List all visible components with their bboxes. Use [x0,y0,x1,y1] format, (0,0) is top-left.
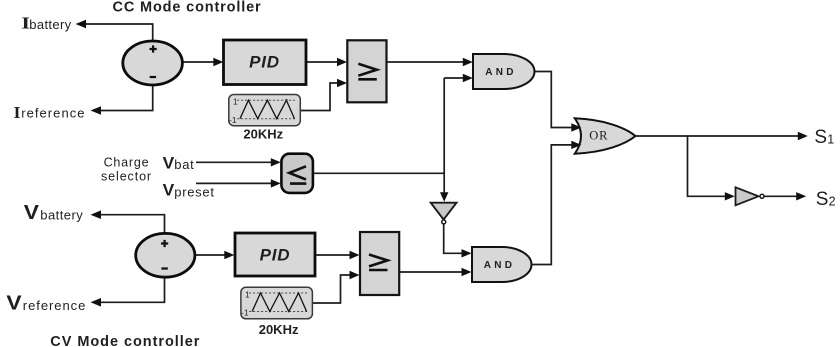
svg-text:CV Mode controller: CV Mode controller [50,334,200,347]
svg-text:1: 1 [827,132,834,146]
svg-text:AND: AND [485,67,517,78]
svg-text:V: V [6,293,22,315]
svg-text:V: V [163,181,175,200]
svg-text:PID: PID [260,246,291,265]
svg-text:V: V [24,202,40,224]
svg-text:-1: -1 [229,115,237,125]
svg-text:S: S [816,189,829,210]
svg-text:AND: AND [484,260,516,271]
svg-text:selector: selector [101,169,152,183]
svg-text:reference: reference [21,106,85,121]
svg-text:battery: battery [40,208,83,223]
svg-text:OR: OR [589,128,608,142]
svg-text:2: 2 [829,194,836,208]
svg-text:20KHz: 20KHz [243,126,283,141]
svg-text:preset: preset [174,184,214,199]
svg-text:1: 1 [233,97,238,107]
svg-text:bat: bat [174,157,194,172]
svg-text:20KHz: 20KHz [259,322,299,337]
svg-text:Charge: Charge [104,155,150,169]
svg-text:battery: battery [29,17,71,32]
svg-text:reference: reference [23,298,86,313]
svg-text:CC Mode controller: CC Mode controller [113,0,262,16]
svg-text:S: S [814,127,827,148]
svg-text:1: 1 [245,289,250,299]
svg-text:-1: -1 [241,308,249,318]
svg-text:V: V [163,154,175,173]
svg-text:I: I [14,103,21,122]
svg-text:PID: PID [249,53,280,72]
